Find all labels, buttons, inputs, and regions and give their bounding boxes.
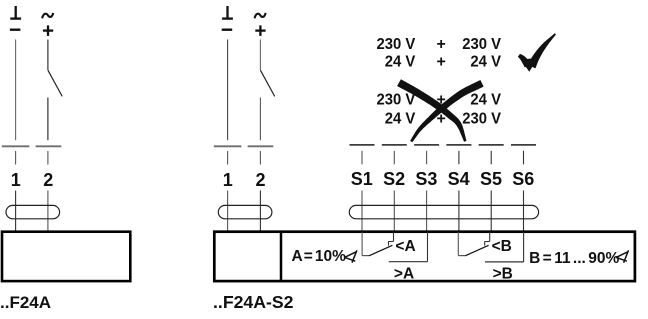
svg-text:B=11...90%: B=11...90% bbox=[529, 250, 619, 267]
switch B pivot bar bbox=[458, 255, 465, 257]
svg-text:..F24A-S2: ..F24A-S2 bbox=[213, 292, 294, 312]
wire S6 inside box bbox=[523, 232, 525, 262]
wire S4 inside box bbox=[457, 232, 459, 256]
voltage table row 2: 24 V + 24 V (valid) bbox=[385, 54, 502, 71]
switch B contact mark bbox=[485, 241, 490, 245]
terminal stub S2 bbox=[393, 151, 395, 165]
svg-text:2: 2 bbox=[255, 170, 265, 190]
switch B blade bbox=[465, 245, 488, 256]
svg-text:24 V: 24 V bbox=[385, 54, 416, 71]
svg-text:S5: S5 bbox=[480, 169, 502, 189]
cable entry oval (diagram 1) bbox=[6, 205, 60, 218]
svg-text:24 V: 24 V bbox=[470, 54, 501, 71]
checkmark (allowed combinations) bbox=[518, 54, 531, 68]
svg-text:+: + bbox=[437, 36, 446, 53]
actuator box ..F24A-S2 bbox=[214, 232, 635, 281]
svg-text:A=10%: A=10% bbox=[292, 248, 347, 265]
actuator box ..F24A bbox=[2, 232, 130, 281]
wire terminal 2 below switch (diagram 1) bbox=[47, 98, 49, 141]
plus polarity label (diagram 2) bbox=[255, 25, 265, 36]
svg-text:1: 1 bbox=[223, 170, 233, 190]
cross-out X stroke (top-left to bottom-right) bbox=[397, 79, 466, 142]
terminal stub S3 bbox=[426, 151, 428, 165]
terminal stub S1 bbox=[361, 151, 363, 165]
wire S6 to actuator bbox=[523, 191, 525, 232]
terminal separator bar S5 bbox=[479, 144, 504, 146]
AC tilde symbol (diagram 2, terminal 2) bbox=[255, 13, 266, 18]
terminal separator bar S6 bbox=[511, 144, 536, 146]
svg-text:230 V: 230 V bbox=[377, 91, 416, 108]
terminal stub S4 bbox=[458, 151, 460, 165]
AC tilde symbol (diagram 1, terminal 2) bbox=[42, 13, 53, 18]
terminal stub S5 bbox=[490, 151, 492, 165]
wire S5 inside box bbox=[489, 232, 491, 242]
wire S4 to actuator bbox=[458, 191, 460, 232]
terminal stub 1 (diagram 1) bbox=[15, 151, 17, 165]
terminal separator bar S1 bbox=[350, 144, 375, 146]
svg-text:..F24A: ..F24A bbox=[0, 293, 51, 312]
minus polarity label (diagram 2) bbox=[222, 29, 233, 31]
plus polarity label (diagram 1) bbox=[43, 25, 53, 36]
wire 2 to actuator (diagram 2) bbox=[259, 191, 261, 232]
svg-text:S2: S2 bbox=[383, 169, 405, 189]
wire S3 to actuator bbox=[426, 191, 428, 232]
voltage table row 3: 230 V + 24 V (invalid) bbox=[377, 91, 502, 108]
switch A contact mark bbox=[389, 241, 394, 245]
svg-text:24 V: 24 V bbox=[470, 91, 501, 108]
terminal stub 2 (diagram 2) bbox=[259, 151, 261, 165]
terminal separator bar 2 (diagram 1) bbox=[36, 145, 62, 147]
terminal separator bar S2 bbox=[382, 144, 407, 146]
voltage table row 4: 24 V + 230 V (invalid) bbox=[385, 110, 502, 127]
wire S2 to actuator bbox=[393, 191, 395, 232]
terminal separator bar S4 bbox=[446, 144, 471, 146]
terminal stub 1 (diagram 2) bbox=[227, 151, 229, 165]
svg-text:S1: S1 bbox=[351, 169, 373, 189]
svg-text:>A: >A bbox=[394, 265, 414, 282]
svg-text:>B: >B bbox=[493, 265, 513, 282]
wire 2 to actuator (diagram 1) bbox=[47, 191, 49, 232]
switch A pivot bar bbox=[362, 255, 369, 257]
svg-text:1: 1 bbox=[11, 170, 21, 190]
switch A lower contact line bbox=[389, 261, 428, 263]
cable entry oval (S terminals) bbox=[349, 205, 538, 218]
wire terminal 2 below switch (diagram 2) bbox=[259, 98, 261, 141]
adjustable symbol (A) bbox=[345, 250, 357, 262]
terminal separator bar 1 (diagram 1) bbox=[2, 145, 30, 147]
cable entry oval (diagram 2 power) bbox=[218, 205, 272, 218]
svg-text:230 V: 230 V bbox=[462, 110, 501, 127]
switch A blade bbox=[369, 245, 392, 256]
terminal stub 2 (diagram 1) bbox=[47, 151, 49, 165]
wire S5 to actuator bbox=[490, 191, 492, 232]
wire 1 to actuator (diagram 1) bbox=[15, 191, 17, 232]
svg-text:230 V: 230 V bbox=[377, 36, 416, 53]
svg-text:S3: S3 bbox=[415, 169, 437, 189]
wire terminal 2 upper (diagram 1) bbox=[47, 40, 49, 71]
switch blade (diagram 1) bbox=[48, 70, 62, 96]
ground symbol (diagram 2, terminal 1) bbox=[222, 6, 233, 20]
svg-text:24 V: 24 V bbox=[385, 110, 416, 127]
wire S2 inside box bbox=[393, 232, 395, 242]
terminal stub S6 bbox=[523, 151, 525, 165]
adjustable symbol (B) bbox=[616, 250, 628, 262]
svg-text:2: 2 bbox=[43, 170, 53, 190]
internal compartment divider bbox=[280, 232, 283, 281]
wire S1 to actuator bbox=[361, 191, 363, 232]
wire terminal 1 upper (diagram 1) bbox=[15, 40, 17, 141]
wire S1 inside box bbox=[361, 232, 363, 256]
switch B lower contact line bbox=[485, 261, 524, 263]
cross-out X stroke (top-right to bottom-left) bbox=[410, 80, 484, 142]
terminal separator bar 2 (diagram 2) bbox=[248, 145, 274, 147]
terminal separator bar S3 bbox=[414, 144, 439, 146]
minus polarity label (diagram 1) bbox=[10, 29, 21, 31]
wire terminal 2 upper (diagram 2) bbox=[259, 40, 261, 71]
ground symbol (diagram 1, terminal 1) bbox=[10, 6, 21, 20]
terminal separator bar 1 (diagram 2) bbox=[214, 145, 242, 147]
svg-text:<B: <B bbox=[492, 238, 512, 255]
wire terminal 1 upper (diagram 2) bbox=[227, 40, 229, 141]
svg-text:+: + bbox=[437, 54, 446, 71]
voltage table row 1: 230 V + 230 V (valid) bbox=[377, 36, 502, 53]
wire S3 inside box bbox=[427, 232, 429, 262]
wire 1 to actuator (diagram 2) bbox=[227, 191, 229, 232]
switch blade (diagram 2) bbox=[260, 70, 274, 96]
svg-text:230 V: 230 V bbox=[462, 36, 501, 53]
svg-text:S6: S6 bbox=[512, 169, 534, 189]
svg-text:<A: <A bbox=[395, 238, 415, 255]
svg-text:S4: S4 bbox=[448, 169, 470, 189]
